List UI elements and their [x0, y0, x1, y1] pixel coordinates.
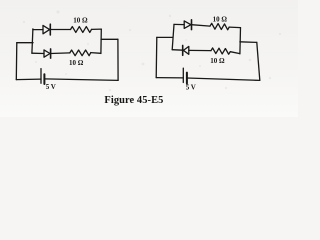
diode D3 — [184, 20, 191, 30]
wire: top branch left segment — [174, 23, 184, 25]
wire: bottom branch right segment — [91, 52, 101, 55]
wire: bottom branch right segment — [230, 52, 240, 54]
wire: bottom left segment — [156, 77, 183, 79]
wire: inner-left vertical — [32, 29, 33, 53]
wire: bottom left segment — [16, 78, 41, 81]
diode D1 — [43, 24, 50, 35]
wire: bottom branch middle segment — [51, 52, 70, 55]
wire: left connector to inner loop — [17, 42, 33, 44]
wire: inner-right vertical — [100, 29, 102, 53]
svg-text:10 Ω: 10 Ω — [210, 57, 225, 65]
wire: bottom right segment — [187, 78, 260, 80]
resistor R4 — [211, 48, 230, 54]
svg-text:5 V: 5 V — [46, 83, 56, 91]
battery B2 (5 V) — [183, 68, 187, 83]
svg-text:10 Ω: 10 Ω — [73, 16, 88, 24]
wire: outer-right vertical — [117, 39, 119, 80]
battery B1 (5 V) — [41, 69, 44, 84]
wire: bottom right segment — [44, 79, 118, 81]
svg-text:10 Ω: 10 Ω — [69, 59, 84, 67]
wire: outer-left vertical — [155, 37, 158, 77]
diode D2 — [44, 49, 51, 58]
wire: outer-right vertical — [257, 42, 260, 80]
wire: left connector to inner loop — [157, 36, 173, 38]
wire: inner-right vertical — [239, 28, 242, 54]
svg-text:10 Ω: 10 Ω — [213, 15, 228, 23]
wire: inner-left vertical — [172, 24, 174, 49]
wire: top branch right segment — [92, 28, 102, 30]
wire: bottom branch middle segment — [189, 49, 211, 51]
wire: top branch middle segment — [192, 25, 211, 26]
svg-text:Figure 45-E5: Figure 45-E5 — [104, 95, 163, 106]
wire: top branch middle segment — [50, 29, 70, 31]
resistor R1 — [71, 27, 92, 33]
svg-text:5 V: 5 V — [186, 83, 196, 91]
diode D4 (reversed) — [183, 45, 189, 55]
wire: outer-left vertical — [15, 43, 18, 80]
resistor R3 — [210, 23, 229, 30]
wire: top branch left segment — [33, 29, 43, 31]
wire: top branch right segment — [229, 26, 240, 29]
wire: bottom branch left segment — [172, 49, 183, 52]
wire: right connector to outer loop — [101, 38, 118, 40]
resistor R2 — [70, 50, 91, 56]
wire: right connector to outer loop — [240, 41, 257, 44]
wire: bottom branch left segment — [32, 52, 44, 54]
